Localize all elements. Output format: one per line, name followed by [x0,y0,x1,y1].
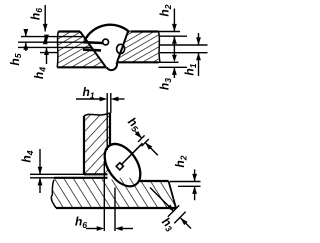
vertical plate (hatched) [84,112,110,174]
h2 arrow down (bottom fig) [192,174,197,182]
h6 arrow up [43,37,48,45]
ref line B (left, bar2 level) [18,46,92,48]
h4 arrow down (bottom fig) [38,167,43,175]
ref line R2 (circle2 bottom level) [160,52,208,54]
h3 arrow toward upper-left [181,218,188,225]
square marker at nugget center [116,163,123,170]
ref line (right margin) below top [159,35,188,37]
dimension h5 [25,31,27,37]
vertical plate top break edge [84,113,110,116]
right plate groove bevel [117,32,128,63]
h3 arrow up [172,67,177,75]
horizontal plate (hatched) [50,178,178,208]
h5 arrow lower-right [135,131,142,138]
weld axis line through nugget [122,143,143,164]
ext line surface level [170,181,201,183]
horizontal plate left break edge [51,180,56,208]
h5 arrow upper-left [145,143,152,150]
h4 arrow up (bottom fig) [38,178,43,186]
ext line VB plate face extension [110,93,112,113]
left plate top edge [58,30,80,32]
right plate break edge [159,32,161,63]
left plate bottom edge [57,66,106,68]
horizontal plate bottom edge [56,207,176,209]
h5 tick A [138,135,145,142]
dimension h2 (top figure) [173,9,175,32]
vertical plate right edge [109,113,111,147]
right plate (hatched) [112,28,162,65]
h4 arrow up [44,47,49,55]
dimension h4 [46,37,48,43]
right plate bottom edge [117,61,159,63]
right plate top edge [131,30,159,32]
weld root bead bump [107,62,117,70]
h1 arrow right [100,97,108,102]
pore circle 1 [103,39,109,45]
vertical plate left edge [83,116,85,174]
ext line V1 from nugget left [103,161,105,231]
ext of left plate bottom level (right margin) [159,66,188,68]
h4 arrow down [44,35,49,43]
ext line nugget bottom level [178,185,201,187]
h6 arrow left [115,226,123,231]
h5 tick B [142,139,149,146]
weld cap (dome) outline [85,25,130,41]
short ref line below bar2 level [40,52,58,54]
h3 shaft upper [150,188,174,212]
ref line R1 (circle2 top level) [160,44,208,46]
h3 shaft lower [181,218,192,229]
left plate break edge [57,32,58,68]
horizontal plate top surface (left of weld) [54,177,108,179]
left plate groove bevel [80,32,106,68]
ext line VA from weld bulge [106,93,108,150]
ext line surface level left [30,177,54,179]
h2 arrow up (bottom fig) [192,186,197,194]
h5 shaft lower [145,143,158,156]
h3 arrow toward lower-right [167,204,174,211]
h5 arrow down [23,29,28,37]
ref line A (left, bar1 level) [18,41,88,43]
pore circle 2 (on right bevel) [117,44,125,53]
ext line vertical-plate-bottom level [30,173,84,175]
ref line y2 (left) [21,36,84,38]
h6 arrow down [43,24,48,32]
ext of right plate top [159,31,181,33]
h2 arrow up [172,36,177,44]
thick level bar 1 inside weld [83,41,103,44]
vertical plate bottom edge [84,173,108,175]
h3 tick F [174,212,185,223]
h5 arrow up [23,42,28,50]
ext of right plate bottom [159,61,179,63]
h5 shaft upper [135,131,142,138]
h1 arrow down [196,37,201,45]
h2 arrow down [172,24,177,32]
horizontal plate top surface (right of weld) [139,180,169,182]
h3 tick E [168,205,179,216]
thick level bar 2 inside weld [83,48,101,51]
dimension h6 [44,5,46,32]
h1 arrow up [196,53,201,61]
weld nugget ellipse [97,138,147,193]
ext line V2 [114,188,116,232]
horizontal plate right edge [169,181,177,208]
h1 arrow left [111,97,119,102]
h3 arrow down [172,55,177,63]
h6 arrow right [97,226,105,231]
left plate (hatched) [52,28,108,71]
right bevel segment through circle 2 [120,44,123,53]
dimension h1 (top figure) [198,33,200,45]
